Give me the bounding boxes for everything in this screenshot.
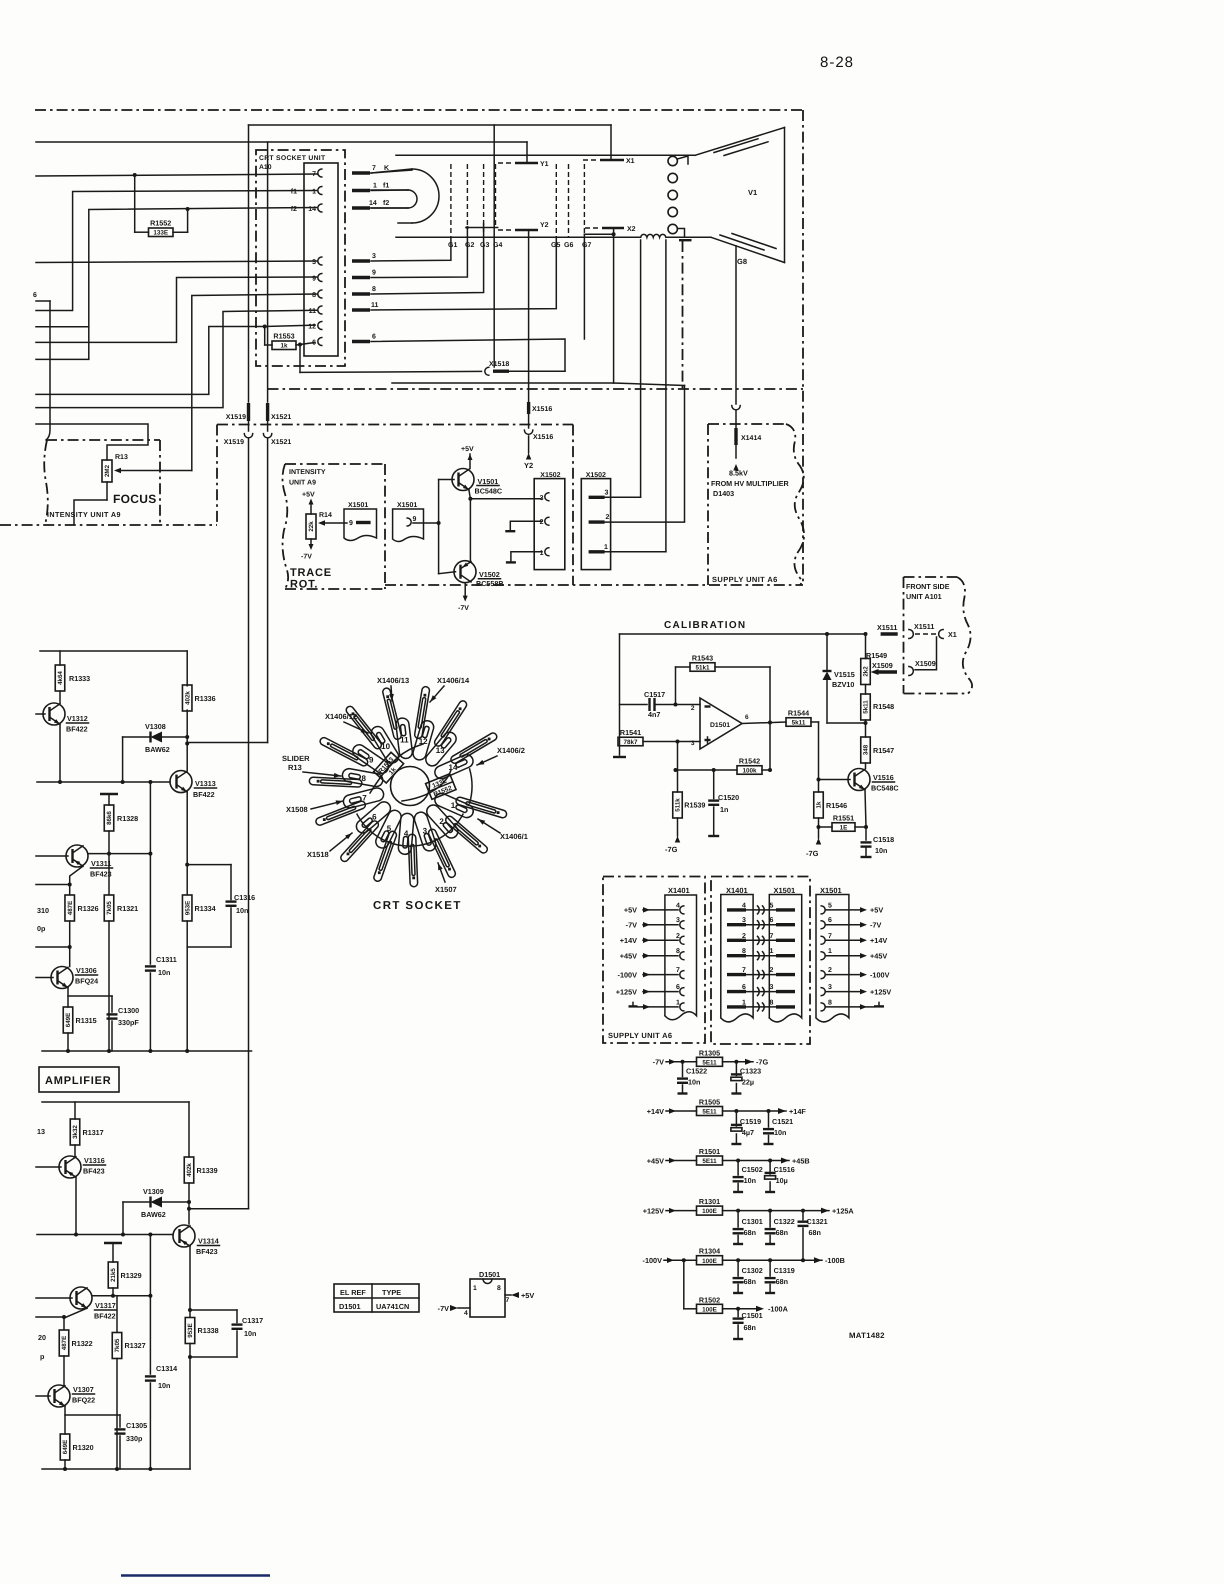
wire feedback vertical: [769, 667, 771, 770]
wire emitter join: [469, 499, 471, 562]
connector X1516 plug: [524, 430, 532, 434]
svg-text:X1406/13: X1406/13: [377, 676, 409, 685]
svg-text:402k: 402k: [184, 691, 191, 705]
interconnect row 4-5: [727, 908, 746, 911]
wire V1313 emitter column: [186, 792, 188, 894]
svg-text:R1333: R1333: [69, 674, 90, 683]
resistor R1328 86k6: [100, 793, 118, 795]
resistor R1333 4k64: [59, 651, 61, 665]
svg-text:68n: 68n: [809, 1228, 821, 1237]
svg-text:649E: 649E: [65, 1013, 72, 1027]
resistor R1326 487E: [65, 895, 75, 921]
svg-text:INTENSITY UNIT A9: INTENSITY UNIT A9: [47, 510, 121, 519]
connector X1501 pin 8: [821, 1003, 825, 1011]
svg-text:Y2: Y2: [540, 222, 549, 229]
wire output R1304: [723, 1259, 823, 1261]
ic D1501 package: [470, 1279, 505, 1317]
svg-text:D1403: D1403: [713, 489, 734, 498]
CRT socket right stubs: [352, 171, 370, 174]
svg-text:C1321: C1321: [807, 1217, 828, 1226]
crt socket lug 8: [342, 769, 382, 787]
svg-text:1: 1: [604, 544, 608, 551]
svg-text:3: 3: [312, 259, 316, 266]
svg-text:-7V: -7V: [458, 605, 469, 612]
wire pin8 to G3: [371, 228, 484, 295]
svg-text:3: 3: [742, 917, 746, 924]
svg-text:4: 4: [464, 1310, 468, 1317]
svg-text:R1552: R1552: [150, 219, 171, 228]
svg-text:BC548C: BC548C: [871, 784, 899, 793]
resistor R1551 1E: [832, 823, 855, 832]
wire upper amp bottom rail: [42, 1050, 252, 1052]
svg-text:G8: G8: [737, 257, 747, 266]
wire V1307 emitter: [64, 1407, 66, 1435]
svg-text:f2: f2: [383, 199, 389, 207]
svg-text:MAT1482: MAT1482: [849, 1331, 885, 1340]
svg-text:+14V: +14V: [870, 936, 887, 945]
svg-text:3: 3: [423, 827, 428, 836]
resistor R1327 7k05: [116, 1296, 118, 1332]
svg-text:1k: 1k: [816, 801, 823, 808]
wire coil left down to X1502 pin3: [640, 240, 642, 497]
svg-text:X1509: X1509: [872, 661, 893, 670]
svg-text:SUPPLY UNIT A6: SUPPLY UNIT A6: [608, 1031, 672, 1040]
svg-text:UA741CN: UA741CN: [376, 1302, 409, 1311]
svg-text:V1515: V1515: [834, 670, 855, 679]
svg-text:+125V: +125V: [643, 1206, 664, 1215]
CRT socket pin hooks: [318, 169, 322, 177]
svg-text:68n: 68n: [744, 1277, 756, 1286]
svg-text:6: 6: [770, 917, 774, 924]
wire X1 top feed: [249, 124, 612, 126]
svg-text:C1516: C1516: [774, 1165, 795, 1174]
svg-text:R13: R13: [288, 763, 302, 772]
wire lower amp top rail: [42, 1101, 189, 1103]
svg-text:R1541: R1541: [620, 728, 641, 737]
svg-text:9: 9: [413, 516, 417, 523]
amplifier label box: [39, 1067, 119, 1092]
svg-text:X1406/14: X1406/14: [437, 676, 470, 685]
svg-text:BF422: BF422: [66, 725, 88, 734]
wire input R1301: [666, 1210, 697, 1212]
wire pin1 net: [36, 191, 317, 311]
svg-text:1: 1: [828, 948, 832, 955]
wire X2 down: [613, 228, 615, 383]
wire R1553 node to X1518: [299, 345, 301, 373]
svg-text:3: 3: [676, 917, 680, 924]
svg-text:EL REF: EL REF: [340, 1288, 366, 1297]
resistor R1552 133E: [149, 228, 174, 237]
capacitor C1521 10n: [767, 1109, 771, 1113]
connector X1502 pin side: [581, 479, 610, 570]
svg-text:C1322: C1322: [774, 1217, 795, 1226]
svg-text:R1338: R1338: [198, 1326, 219, 1335]
svg-text:X1501: X1501: [820, 886, 842, 895]
deflection plate Y1: [498, 162, 514, 164]
CRT funnel top slant: [695, 128, 785, 156]
svg-text:487E: 487E: [67, 901, 74, 915]
svg-text:5: 5: [828, 902, 832, 909]
svg-text:+5V: +5V: [302, 492, 315, 499]
svg-text:+125V: +125V: [870, 987, 891, 996]
svg-text:8: 8: [361, 774, 366, 783]
svg-text:R14: R14: [319, 512, 332, 519]
wire output R1305: [723, 1061, 754, 1063]
resistor R1322 487E: [59, 1330, 69, 1356]
svg-text:X1502: X1502: [586, 472, 606, 479]
svg-text:X1: X1: [948, 630, 957, 639]
capacitor C1502 10n: [736, 1159, 740, 1163]
ground symbol X1501 pin8: [878, 1002, 880, 1006]
transistor V1502 BC558B: [454, 561, 476, 583]
svg-text:X1521: X1521: [271, 439, 291, 446]
svg-text:330p: 330p: [126, 1434, 143, 1443]
wire pin1 ground: [511, 552, 542, 562]
svg-text:1: 1: [312, 189, 316, 196]
svg-text:CRT SOCKET: CRT SOCKET: [373, 900, 462, 912]
resistor R1543 51k1: [690, 663, 715, 672]
wire pin8 net to focus wiper: [192, 294, 317, 471]
crt socket lug 1: [435, 793, 473, 817]
resistor R1553 lead curve: [370, 744, 423, 793]
svg-text:C1520: C1520: [718, 793, 739, 802]
wire R1539 column: [677, 742, 679, 771]
intensity unit A9 trace rot box: [285, 463, 385, 465]
svg-text:-100A: -100A: [768, 1305, 789, 1314]
resistor R1334 953E: [182, 895, 192, 921]
wire left edge 947: [36, 946, 70, 948]
wire V1309 node to X1519: [189, 1208, 249, 1210]
svg-text:3: 3: [540, 495, 544, 502]
svg-text:6: 6: [33, 292, 37, 299]
wire left vertical: [619, 634, 621, 755]
dash-dot border bottom of CRT region: [268, 388, 804, 390]
svg-text:10n: 10n: [236, 906, 248, 915]
svg-text:SLIDER: SLIDER: [282, 754, 310, 763]
wire output R1505: [723, 1110, 787, 1112]
resistor R1548 5k11: [861, 694, 871, 720]
transistor V1501 BC548C: [452, 469, 474, 491]
svg-text:BZV10: BZV10: [832, 680, 854, 689]
svg-text:X1509: X1509: [915, 659, 936, 668]
svg-text:4k64: 4k64: [57, 671, 64, 685]
crt socket lug 12: [413, 721, 434, 760]
svg-text:R1539: R1539: [684, 801, 705, 810]
svg-text:-100V: -100V: [643, 1256, 663, 1265]
svg-text:22k: 22k: [308, 521, 315, 532]
svg-text:+45V: +45V: [620, 952, 637, 961]
connector X1521 plug: [263, 434, 271, 438]
wire base vertical: [438, 480, 440, 574]
connector X1518: [485, 367, 489, 375]
supply unit A6 box: [708, 423, 786, 425]
wire left edge 884: [36, 884, 70, 886]
wire pin9 net: [36, 277, 317, 342]
svg-text:R1549: R1549: [866, 651, 887, 660]
svg-text:68n: 68n: [744, 1228, 756, 1237]
svg-text:X1508: X1508: [286, 805, 308, 814]
crt socket lug 11: [396, 718, 412, 758]
wire pin11 net: [36, 310, 317, 407]
dash-dot border top of CRT region: [35, 109, 803, 111]
svg-text:R1547: R1547: [873, 746, 894, 755]
svg-text:5E11: 5E11: [702, 1158, 717, 1165]
interconnect row 6-3: [727, 990, 746, 993]
svg-text:133E: 133E: [153, 230, 168, 237]
svg-text:R1544: R1544: [788, 709, 809, 718]
crt socket lug 10: [371, 726, 398, 763]
capacitor C1520 1n: [713, 770, 715, 799]
capacitor C1302 68n: [736, 1258, 740, 1262]
svg-text:R1551: R1551: [833, 814, 854, 823]
connector X1 plug: [939, 630, 944, 639]
wire V1316 emitter to rail: [75, 1178, 77, 1235]
wire to V1516 base: [818, 722, 820, 779]
svg-text:5E11: 5E11: [702, 1059, 717, 1066]
svg-text:2: 2: [742, 933, 746, 940]
svg-text:8: 8: [497, 1285, 501, 1292]
resistor R1301 100E: [697, 1206, 723, 1215]
svg-text:X1519: X1519: [226, 414, 246, 421]
svg-text:+45V: +45V: [647, 1156, 664, 1165]
svg-text:4: 4: [742, 902, 746, 909]
svg-text:BFQ22: BFQ22: [72, 1396, 95, 1405]
svg-text:8: 8: [312, 292, 316, 299]
transistor V1516 BC548C: [848, 769, 870, 791]
capacitor C1319 68n: [768, 1258, 772, 1262]
connector X1414: [735, 411, 737, 428]
wire X2 row to plates: [392, 382, 614, 384]
svg-text:V1307: V1307: [73, 1385, 94, 1394]
connector X1502 socket: [534, 479, 565, 570]
svg-text:7: 7: [372, 165, 376, 172]
svg-text:R1301: R1301: [699, 1197, 720, 1206]
dash-dot border left step vertical: [216, 425, 218, 526]
capacitor C1316 10n: [187, 864, 231, 866]
wire pin14 net: [36, 208, 317, 327]
svg-text:V1316: V1316: [84, 1156, 105, 1165]
capacitor C1322 68n: [768, 1209, 772, 1213]
svg-text:4n7: 4n7: [648, 710, 660, 719]
svg-text:BF422: BF422: [94, 1312, 116, 1321]
resistor R1321 7k05: [108, 854, 110, 894]
svg-text:1: 1: [473, 1285, 477, 1292]
resistor R1317 3k32: [74, 1102, 76, 1119]
svg-text:2M2: 2M2: [104, 464, 111, 477]
wire input R1505: [666, 1110, 697, 1112]
svg-text:6: 6: [676, 984, 680, 991]
svg-text:C1316: C1316: [234, 893, 255, 902]
svg-text:R1339: R1339: [197, 1166, 218, 1175]
connector X1401 pin 3: [680, 921, 684, 929]
wire pin3 net: [36, 261, 317, 263]
svg-text:+125V: +125V: [616, 987, 637, 996]
svg-text:7: 7: [828, 933, 832, 940]
transistor V1316 BF423: [59, 1156, 81, 1178]
wire -100V branch: [682, 1258, 686, 1262]
CRT socket unit A10 dashed box: [256, 150, 345, 366]
svg-text:BAW62: BAW62: [145, 745, 170, 754]
svg-text:V1309: V1309: [143, 1187, 164, 1196]
crt socket lug 4: [398, 813, 413, 854]
svg-text:5E11: 5E11: [702, 1109, 717, 1116]
supply -7G tap R1539: [675, 836, 681, 843]
svg-text:X1511: X1511: [914, 622, 934, 631]
svg-text:2: 2: [828, 967, 832, 974]
resistor R1338 953E: [185, 1318, 195, 1344]
wire G8 lead: [735, 246, 737, 404]
resistor R1339 402k: [188, 1102, 190, 1157]
svg-text:8: 8: [676, 948, 680, 955]
svg-text:2: 2: [439, 817, 444, 826]
svg-text:1: 1: [373, 183, 377, 190]
svg-text:C1522: C1522: [686, 1067, 707, 1076]
deflection plate Y2: [498, 229, 514, 231]
svg-text:348: 348: [863, 744, 870, 755]
resistor R1553 1k: [272, 341, 296, 350]
potentiometer R13 2M2: [102, 460, 112, 482]
wire output R1502: [723, 1308, 759, 1310]
wire coil right down to X1502 pin1: [665, 240, 667, 552]
wire base rail 782: [37, 781, 170, 783]
heater filament arc: [408, 190, 417, 208]
wire X1519 lower vertical: [248, 439, 250, 1209]
svg-text:V1317: V1317: [95, 1301, 116, 1310]
svg-text:V1314: V1314: [198, 1237, 219, 1246]
wire pin11 to G5: [371, 237, 556, 310]
ic D1501 pin7 +5V: [505, 1294, 511, 1296]
wire V1314 emitter column: [189, 1247, 191, 1318]
svg-text:+14F: +14F: [789, 1107, 806, 1116]
connector X1501 pin 3: [821, 988, 825, 996]
CRT funnel coating lines top: [714, 139, 758, 153]
grid G2-G3-G4 tie bar: [466, 227, 498, 229]
svg-text:1n: 1n: [720, 805, 728, 814]
wire X1502 pin3 up: [605, 496, 641, 498]
capacitor C1501 68n: [736, 1307, 740, 1311]
svg-text:X1519: X1519: [224, 439, 244, 446]
svg-text:C1502: C1502: [742, 1165, 763, 1174]
svg-text:4: 4: [676, 902, 680, 909]
svg-text:BF423: BF423: [196, 1247, 218, 1256]
svg-text:-100V: -100V: [618, 970, 638, 979]
svg-text:X1501: X1501: [774, 886, 796, 895]
transistor V1312 BF422: [43, 703, 65, 725]
resistor R1501 5E11: [697, 1156, 723, 1165]
svg-text:AMPLIFIER: AMPLIFIER: [45, 1075, 111, 1087]
svg-text:1: 1: [770, 948, 774, 955]
svg-text:UNIT A9: UNIT A9: [289, 480, 316, 487]
svg-text:100E: 100E: [702, 1208, 717, 1215]
svg-text:X1516: X1516: [533, 434, 553, 441]
svg-text:R1334: R1334: [195, 904, 216, 913]
svg-text:6: 6: [372, 813, 377, 822]
svg-text:-7G: -7G: [806, 849, 819, 858]
capacitor C1311 10n: [149, 854, 151, 964]
interconnect row 2-7: [727, 939, 746, 942]
CRT neck outline bottom: [396, 236, 641, 238]
connector X1401 pin 4: [680, 906, 684, 914]
deflection coil: [641, 234, 666, 237]
grid G4 dashed: [495, 164, 497, 228]
resistor R1304 100E: [697, 1256, 723, 1265]
svg-text:X1511: X1511: [877, 623, 897, 632]
svg-text:-7V: -7V: [301, 554, 312, 561]
svg-text:6: 6: [372, 334, 376, 341]
svg-text:2: 2: [606, 514, 610, 521]
resistor R1541 78k7: [618, 737, 643, 746]
grid G1 dashed: [450, 164, 452, 237]
resistor R1544 5k11: [786, 718, 811, 727]
svg-text:R1329: R1329: [121, 1271, 142, 1280]
wire V1306 emitter to C1300: [68, 995, 112, 997]
wire Y2 down to X1516: [528, 230, 530, 402]
svg-text:68n: 68n: [776, 1228, 788, 1237]
ground C1520: [708, 835, 719, 837]
svg-text:V1: V1: [748, 188, 757, 197]
resistor R1320 649E: [60, 1434, 70, 1460]
capacitor C1317 10n: [190, 1309, 237, 1311]
svg-text:22µ: 22µ: [742, 1078, 754, 1087]
wire Y1 to top: [526, 142, 528, 163]
svg-text:R1305: R1305: [699, 1048, 720, 1057]
svg-text:V1306: V1306: [76, 966, 97, 975]
svg-text:R13: R13: [115, 454, 128, 461]
svg-text:+5V: +5V: [521, 1291, 534, 1300]
svg-text:11: 11: [400, 735, 409, 744]
resistor R1546 1k: [818, 780, 820, 793]
grid G5 dashed: [555, 164, 557, 237]
svg-text:10n: 10n: [244, 1329, 256, 1338]
connector X1501 pin 5: [821, 906, 825, 914]
capacitor C1516 10&#181;: [768, 1159, 772, 1163]
connector X1501 pin body: [769, 895, 801, 1022]
el ref table: [334, 1284, 419, 1312]
wire output R1501: [723, 1160, 790, 1162]
svg-text:330pF: 330pF: [118, 1018, 139, 1027]
svg-text:7: 7: [362, 794, 367, 803]
cathode K arc: [412, 169, 439, 223]
capacitor C1517 4n7: [620, 704, 648, 706]
svg-text:-7V: -7V: [626, 921, 637, 930]
svg-text:6: 6: [828, 917, 832, 924]
connector X1401 pin 8: [680, 952, 684, 960]
capacitor C1519 4&#181;7: [734, 1109, 738, 1113]
svg-text:-7G: -7G: [756, 1058, 768, 1067]
svg-text:4µ7: 4µ7: [742, 1128, 754, 1137]
svg-text:R1548: R1548: [873, 702, 894, 711]
wire calibration top rail: [620, 633, 866, 635]
wire focus feed: [36, 424, 148, 460]
svg-text:X1401: X1401: [726, 886, 748, 895]
svg-text:13: 13: [436, 746, 445, 755]
front side unit A101 box: [904, 576, 958, 578]
connector X1401 pin 7: [680, 971, 684, 979]
svg-text:R1304: R1304: [699, 1247, 720, 1256]
wire pin3 to G1: [371, 237, 451, 261]
svg-text:5: 5: [770, 902, 774, 909]
svg-text:1k: 1k: [280, 343, 288, 350]
dash-dot border bottom left: [0, 524, 217, 526]
svg-text:R1501: R1501: [699, 1147, 720, 1156]
svg-text:+5V: +5V: [461, 446, 474, 453]
wire V1317 collector node: [92, 1295, 150, 1297]
svg-text:V1313: V1313: [195, 779, 216, 788]
connector X1501 pin 7: [821, 936, 825, 944]
svg-text:G1: G1: [448, 242, 457, 249]
intensity unit A9 focus box: [46, 439, 160, 441]
svg-text:BC558B: BC558B: [476, 579, 504, 588]
